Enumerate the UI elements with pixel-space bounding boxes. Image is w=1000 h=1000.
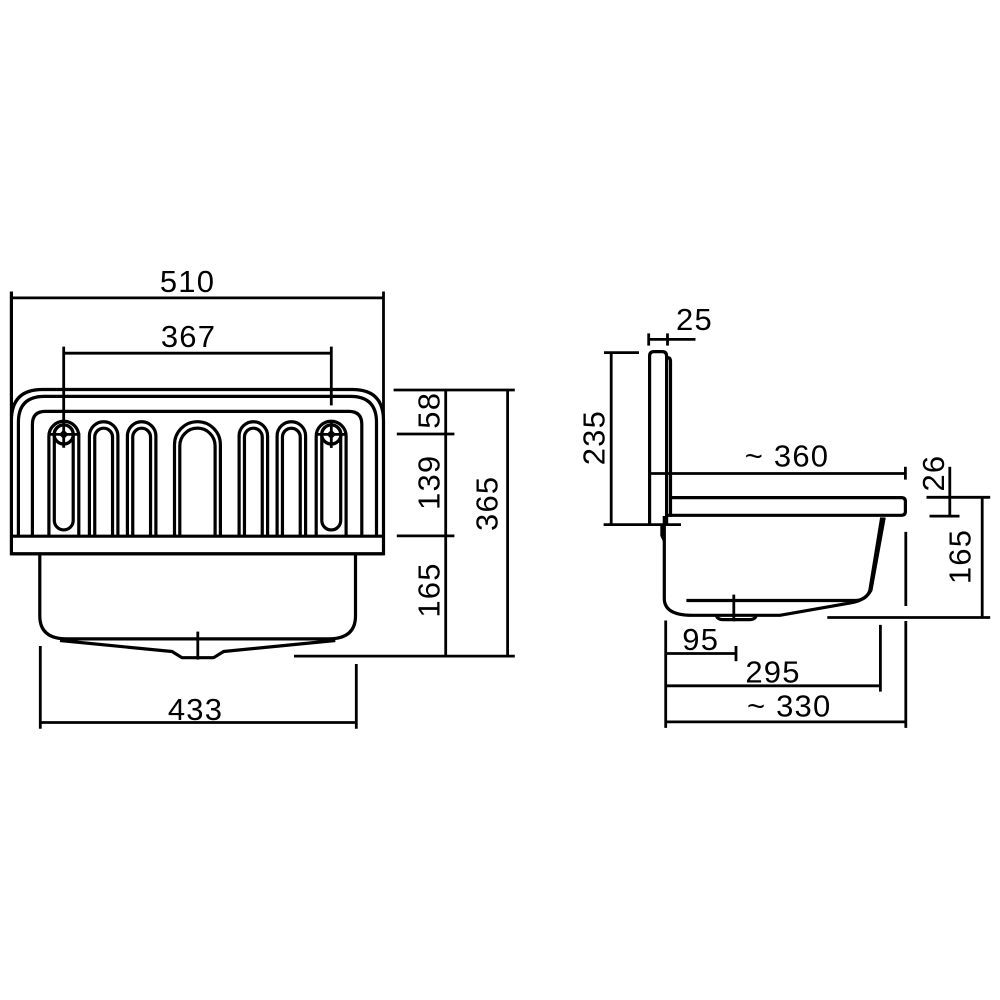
dim 295 right extension bbox=[879, 625, 882, 692]
dim 165 side bottom extension bbox=[827, 616, 990, 619]
svg-text:~ 360: ~ 360 bbox=[745, 438, 829, 473]
mounting hole left circle bbox=[54, 425, 73, 444]
basin drain tick side bbox=[732, 595, 735, 622]
svg-text:433: 433 bbox=[168, 692, 223, 727]
dim 295 line bbox=[666, 684, 881, 687]
drain flange bump below bottom bbox=[716, 615, 756, 619]
dim ~330 right extension upper bbox=[904, 532, 907, 606]
svg-text:26: 26 bbox=[916, 455, 951, 492]
mounting hole right circle bbox=[322, 425, 341, 444]
dim ~360 line bbox=[649, 472, 906, 475]
loop 4 inner bbox=[180, 428, 215, 536]
basin back wall and bottom side view bbox=[664, 516, 884, 615]
loop 6 inner bbox=[282, 428, 300, 536]
dim 25 line bbox=[649, 338, 696, 341]
dim 26 line bbox=[948, 467, 951, 516]
basin inner bottom line bbox=[686, 518, 881, 601]
dim 235 top extension bbox=[604, 351, 639, 354]
loop 6 outer bbox=[277, 422, 306, 536]
sink drain center tick bbox=[196, 632, 199, 660]
sink basin outline front bbox=[40, 555, 356, 639]
dim 510 left extension bbox=[10, 292, 13, 421]
grate bottom bar top edge bbox=[11, 535, 383, 538]
mounting hole left center diamond bbox=[59, 430, 69, 440]
dim ~360 right tick bbox=[904, 467, 907, 480]
dim line 58/139/165 bbox=[444, 390, 447, 656]
svg-text:139: 139 bbox=[411, 455, 446, 510]
right stack top extension (grate top level) bbox=[394, 389, 515, 392]
dim 26 bottom tick bbox=[930, 515, 960, 518]
dim 367 left extension centerline bbox=[62, 347, 65, 448]
right stack tick at hole centerline level bbox=[397, 433, 455, 436]
loop 7 outer (right, with hole) bbox=[316, 421, 346, 536]
dim 95 right tick bbox=[735, 646, 738, 661]
dim 95 line bbox=[666, 652, 736, 655]
svg-text:165: 165 bbox=[943, 529, 978, 584]
dim ~330 left shared extension bbox=[664, 621, 667, 728]
dim 26 top tick and 165 top extension bbox=[927, 496, 991, 499]
hanger tab below panel bbox=[662, 525, 664, 541]
right stack tick at bar top level bbox=[397, 535, 455, 538]
svg-text:295: 295 bbox=[745, 655, 800, 690]
dim 165 side line bbox=[981, 497, 984, 617]
grate outer rounded frame bbox=[11, 292, 383, 554]
svg-text:165: 165 bbox=[411, 562, 446, 617]
dim 367 right extension centerline upper bbox=[330, 347, 333, 406]
svg-text:95: 95 bbox=[682, 622, 719, 657]
hanger bracket line bbox=[668, 358, 671, 517]
dim 433 line bbox=[40, 721, 356, 724]
loop 3 outer bbox=[127, 422, 155, 536]
dim 367 right extension centerline lower bbox=[330, 422, 333, 448]
loop 2 outer bbox=[89, 422, 118, 536]
grate bottom bar bottom edge bbox=[11, 552, 383, 555]
dim 510 right extension bbox=[382, 292, 385, 421]
dim 235 bottom extension (panel bottom) bbox=[604, 523, 681, 526]
dim 367 line bbox=[64, 352, 332, 355]
mounting hole left horizontal centerline bbox=[48, 433, 81, 436]
svg-text:367: 367 bbox=[161, 319, 216, 354]
mounting hole right center diamond bbox=[327, 430, 337, 440]
loop 3 inner bbox=[133, 428, 151, 536]
svg-text:235: 235 bbox=[577, 410, 612, 465]
dim ~330 right extension lower bbox=[904, 621, 907, 728]
svg-text:510: 510 bbox=[160, 264, 215, 299]
shelf rim side view bbox=[667, 498, 906, 516]
dim 433 right extension bbox=[355, 664, 358, 729]
svg-text:58: 58 bbox=[411, 392, 446, 429]
dim line 365 bbox=[506, 390, 509, 656]
loop 7 inner closed stadium bbox=[322, 425, 341, 530]
dim 25 right tick bbox=[666, 333, 669, 345]
wall panel side bbox=[650, 352, 667, 525]
dim ~330 line bbox=[666, 721, 906, 724]
dim 25 left tick bbox=[647, 333, 650, 345]
loop 4 outer (center, wide) bbox=[175, 422, 221, 537]
right stack bottom extension (sink bottom level) bbox=[294, 655, 515, 658]
dim 235 line bbox=[610, 353, 613, 525]
grate second (inner lip) rounded line bbox=[18, 396, 376, 536]
loop 1 inner closed stadium bbox=[54, 425, 73, 530]
mounting hole right horizontal centerline bbox=[316, 433, 348, 436]
loop 2 inner bbox=[95, 428, 113, 536]
svg-text:~ 330: ~ 330 bbox=[747, 689, 831, 724]
dim 433 left extension bbox=[39, 646, 42, 729]
grate inner panel rounded line bbox=[32, 411, 361, 536]
svg-text:365: 365 bbox=[469, 476, 504, 531]
loop 5 inner bbox=[244, 428, 262, 536]
dim 510 line bbox=[11, 296, 383, 299]
sink bottom trough contour bbox=[60, 641, 335, 658]
svg-text:25: 25 bbox=[676, 302, 713, 337]
loop 5 outer bbox=[239, 422, 268, 536]
loop 1 outer (left, with hole) bbox=[49, 421, 79, 536]
